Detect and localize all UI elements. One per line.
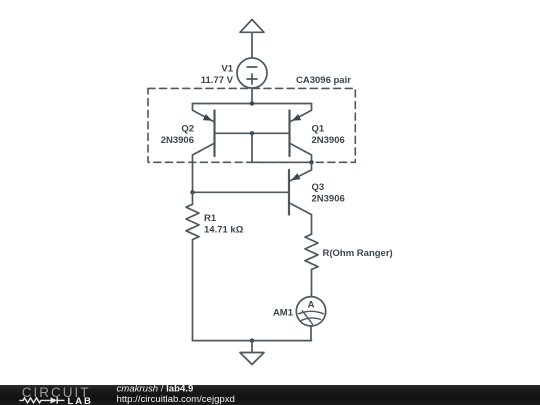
wire R1 to bottom rail — [192, 240, 194, 341]
footer bar — [0, 385, 540, 405]
node ground — [250, 338, 254, 342]
label Q3 2N3906 — [312, 182, 345, 205]
svg-text:LAB: LAB — [68, 396, 93, 405]
svg-text:CA3096 pair: CA3096 pair — [296, 75, 351, 86]
svg-text:R1: R1 — [204, 213, 217, 224]
CA3096 pair dashed box — [148, 88, 355, 162]
transistor Q3 — [193, 162, 312, 234]
wire bias rail — [252, 161, 312, 163]
svg-text:Q3: Q3 — [312, 182, 325, 193]
label V1 11.77 V — [201, 63, 234, 85]
ground — [240, 341, 264, 365]
voltage source V1 — [237, 58, 267, 88]
node emitter rail — [250, 101, 254, 105]
svg-text:V1: V1 — [221, 63, 233, 74]
svg-text:Q1: Q1 — [312, 123, 325, 134]
svg-text:http://circuitlab.com/cejgpxd: http://circuitlab.com/cejgpxd — [117, 394, 235, 405]
label Q1 2N3906 — [312, 123, 345, 146]
node base join — [250, 131, 254, 135]
wire V1 to node — [251, 88, 253, 104]
svg-text:Q2: Q2 — [181, 123, 194, 134]
wire base down — [251, 133, 253, 162]
resistor R(Ohm Ranger) — [305, 234, 318, 269]
wire bottom rail — [193, 340, 312, 342]
svg-text:R(Ohm Ranger): R(Ohm Ranger) — [323, 248, 393, 259]
label Q2 2N3906 — [161, 123, 194, 146]
wire ammeter to bottom rail — [310, 326, 312, 341]
transistor Q2 — [193, 104, 253, 193]
resistor R1 — [186, 192, 199, 239]
power flag — [240, 20, 264, 33]
svg-text:2N3906: 2N3906 — [312, 135, 345, 146]
node Q1 collector — [309, 160, 313, 164]
CircuitLab logo — [19, 385, 92, 405]
footer text cmakrush / lab4.9 — [117, 384, 235, 405]
label AM1 — [273, 307, 294, 318]
ammeter AM1 — [296, 297, 325, 326]
wire emitter rail — [193, 103, 312, 105]
node Q3 base / R1 top — [190, 190, 194, 194]
label R1 14.71 kOhm — [204, 213, 244, 236]
svg-text:A: A — [308, 300, 315, 311]
svg-text:14.71 kΩ: 14.71 kΩ — [204, 225, 244, 236]
svg-text:AM1: AM1 — [273, 307, 294, 318]
svg-text:11.77 V: 11.77 V — [201, 75, 234, 86]
svg-text:2N3906: 2N3906 — [161, 135, 194, 146]
wire resistor to ammeter — [311, 270, 313, 297]
svg-text:2N3906: 2N3906 — [312, 193, 345, 204]
label ammeter A — [308, 300, 315, 311]
transistor Q1 — [252, 104, 312, 163]
label CA3096 pair — [296, 75, 351, 86]
wire flag to V1 — [251, 32, 253, 58]
label R(Ohm Ranger) — [323, 248, 393, 259]
